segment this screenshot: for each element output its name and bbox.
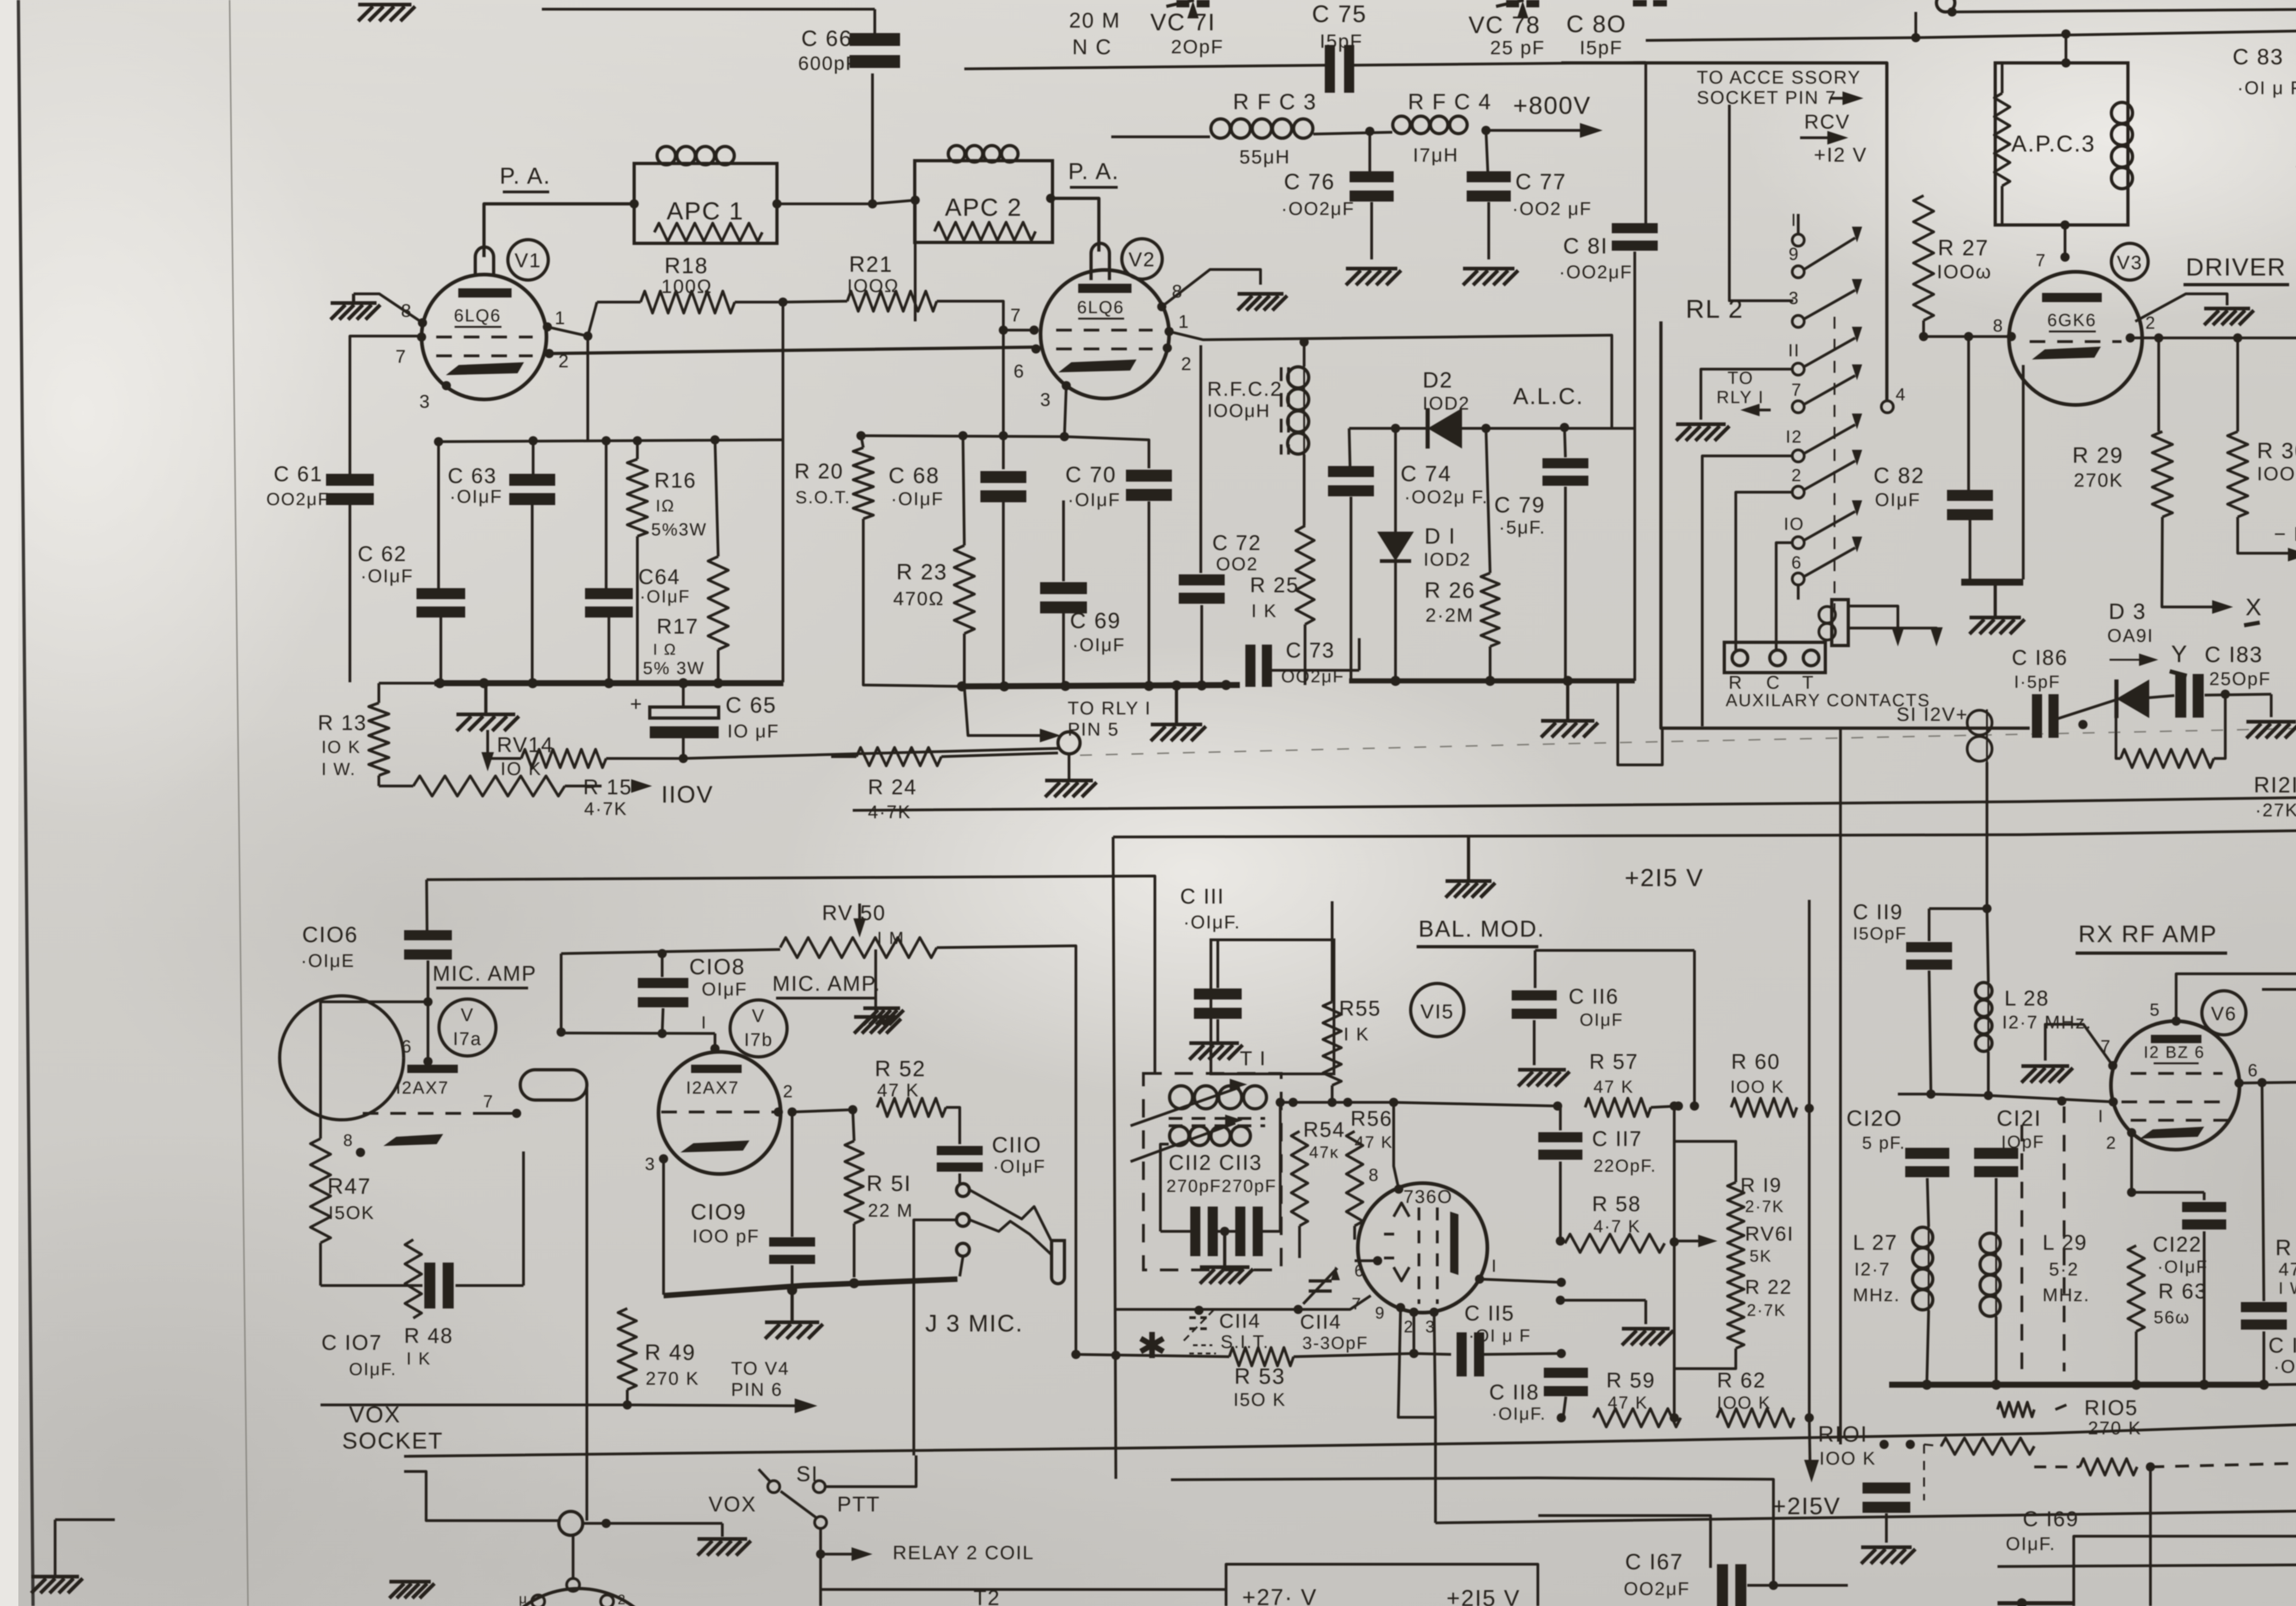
svg-text:8: 8 [1368,1166,1379,1185]
tube V1 pin 2 [545,349,570,371]
ground (C169) [1861,1547,1915,1564]
junction APC2 right [1046,194,1055,203]
resistor R59 [1557,1409,1681,1427]
tube V15 pins 9 2 3 [1375,1303,1439,1336]
wire APC3 to V3 cap [2064,225,2066,257]
svg-text:R 60: R 60 [1731,1050,1780,1073]
tube V1 pin 8 [401,301,427,327]
wire V1 top-cap to APC1 [484,204,634,257]
svg-text:OO2μF: OO2μF [266,490,330,509]
label APC2 [945,194,1023,221]
svg-text:·OO2μ F.: ·OO2μ F. [1404,487,1488,507]
capacitor C118 [1544,1282,1588,1418]
tube V17b pin 1 [701,1013,720,1053]
inner bracket (accessory) [1729,105,1793,301]
svg-text:·27K: ·27K [2255,800,2296,820]
tube V15 pin 1 [1475,1257,1497,1284]
svg-text:·OIμF: ·OIμF [2157,1258,2208,1277]
wire vox frame [404,1471,559,1521]
label R25 [1250,573,1299,621]
svg-text:I: I [2098,1107,2104,1126]
svg-text:9: 9 [1789,245,1800,264]
svg-text:3: 3 [1040,390,1052,410]
resistor R57 [1558,1098,1678,1117]
box T2 top [1226,1564,1538,1606]
svg-text:J 3 MIC.: J 3 MIC. [925,1310,1024,1337]
svg-text:IOOK: IOOK [2257,463,2296,484]
ground (C82/V3) [1970,585,2025,634]
label D2 [1423,368,1470,414]
switch S1 contact b [813,1481,825,1493]
resistor R58 [1560,1234,1674,1252]
label R60 [1730,1050,1784,1097]
label C68 [889,464,944,509]
wire pin2 to R52 node [792,1105,857,1114]
label R53 [1233,1365,1286,1410]
junction R57 right [1674,1101,1683,1111]
svg-text:I: I [1491,1257,1497,1276]
wire C167 right [1847,1585,1848,1598]
svg-text:470Ω: 470Ω [893,588,944,609]
label TO RLY 1 [1716,369,1771,416]
tube V17a envelope (half) [280,996,404,1120]
label +800V [1513,92,1591,119]
svg-text:55μH: 55μH [1239,146,1290,168]
wire R49 from bus [619,1296,619,1308]
label C118 [1489,1380,1546,1424]
wire relay2 arrow [821,1547,872,1561]
svg-text:3: 3 [419,392,431,412]
svg-text:2: 2 [1181,354,1193,374]
label circle V15 [1411,983,1464,1037]
resistor R29 [2152,338,2233,614]
potentiometer RV50 [780,904,937,958]
label C74 [1401,462,1488,507]
tube V2 pin 3 [1040,381,1071,410]
tube V1 cathode [446,362,524,375]
terminal circle (R24 line) [1058,732,1080,754]
wire V1 lower node rail [435,440,783,442]
vert x1222 [557,954,566,1037]
svg-text:R F C 3: R F C 3 [1233,90,1317,114]
svg-text:7: 7 [483,1092,494,1112]
svg-text:OO2: OO2 [1216,554,1258,574]
junction C106 node [423,997,433,1006]
box C111 [1211,940,1334,1074]
box APC3 [1995,63,2128,225]
tube V1 envelope [422,275,546,399]
svg-text:9: 9 [1375,1303,1385,1322]
svg-text:R: R [1728,673,1743,693]
tube V2 grid dashes [1056,330,1153,349]
tube V3 cathode lead+bar [1961,363,2034,582]
svg-text:·OIμF: ·OIμF [1072,635,1125,655]
wire V3 pin2 right rail [2130,333,2296,343]
wire y3317 long [1435,1511,2296,1523]
label T2 [974,1586,1001,1606]
contact 7 (RL2) [1791,381,1804,413]
label C80 [1566,11,1626,58]
svg-text:I Ω: I Ω [653,641,677,658]
tube V17a pin 8 [343,1131,365,1157]
wire y3301 [1538,1516,1711,1568]
junction V6 bus dots [1922,1379,2296,1390]
switch S1 blade [759,1469,816,1518]
capacitor C73 (series) [1226,638,1359,687]
inductor APC2 coil [948,146,1018,162]
svg-text:C 69: C 69 [1070,609,1121,633]
svg-text:PIN 6: PIN 6 [731,1380,783,1400]
svg-text:47 K: 47 K [2279,1259,2296,1280]
bus B3 (low horizontal) [404,1423,2296,1456]
svg-text:S.O.T.: S.O.T. [795,488,851,507]
capacitor C107 (series) [321,1151,523,1308]
wire C66col down from APC2 node [861,200,915,436]
svg-text:3-3OpF: 3-3OpF [1302,1334,1368,1353]
label C119 [1853,900,1907,943]
svg-text:R F C 4: R F C 4 [1408,90,1492,114]
svg-text:·OI μ F.: ·OI μ F. [2237,78,2296,98]
svg-text:6: 6 [1791,553,1802,573]
label L28 [2002,986,2092,1033]
svg-text:R16: R16 [654,468,697,492]
svg-text:C 79: C 79 [1494,493,1545,517]
label C84 [2295,603,2296,649]
svg-text:I K: I K [1344,1024,1369,1044]
tube V17b plate [691,1065,742,1073]
svg-text:IOO K: IOO K [1717,1393,1771,1413]
ground (C76) [1346,269,1401,285]
label TO ACCESSORY SOCKET PIN 7 [1697,67,1863,108]
junction R49 bottom [623,1400,632,1409]
ground (V17b bus) [765,1290,823,1339]
label A.P.C.3 [2011,131,2095,157]
label C65 [726,693,779,741]
label R16 [651,468,707,539]
svg-text:V: V [752,1006,765,1026]
junction APC1 left [630,199,639,208]
wire ALC bottom bus [1349,428,1635,681]
resistor R56 [1346,1102,1363,1240]
svg-text:2·7K: 2·7K [1747,1301,1786,1320]
label C75 [1312,1,1367,52]
tube V15 envelope [1358,1183,1487,1313]
junction R17 col top [710,435,720,444]
label C70 [1065,463,1121,510]
wire PTT to bus [825,1455,916,1487]
box bottom (C167 area) [1538,1478,1778,1590]
svg-text:736O: 736O [1403,1187,1453,1207]
svg-text:47 K: 47 K [1608,1393,1648,1413]
svg-text:100Ω: 100Ω [661,275,712,297]
capacitor C68 [980,436,1026,686]
tube V2 envelope [1041,270,1169,399]
svg-text:R54: R54 [1303,1117,1345,1141]
svg-text:C 83: C 83 [2233,45,2284,69]
svg-text:I2AX7: I2AX7 [686,1078,739,1098]
wire x3646 col [1670,1101,1679,1422]
label +12V [1814,144,1867,166]
svg-text:8: 8 [1993,316,2004,336]
capacitor C108 [638,949,688,1033]
capacitor C112 (series) [1160,1207,1218,1256]
label R121 [2254,773,2296,820]
svg-text:I2·7 MHz.: I2·7 MHz. [2002,1012,2092,1033]
svg-text:25OpF: 25OpF [2209,669,2271,689]
junction vox node [602,1519,611,1528]
label 20M NC [1069,8,1120,59]
tube V17b cathode [681,1140,749,1152]
svg-text:MIC. AMP.: MIC. AMP. [772,971,881,995]
wire V17b pin3 down [662,1159,665,1295]
label R49 [645,1341,699,1389]
svg-text:IOO K: IOO K [1730,1078,1784,1097]
tube V6 grid dashes [2122,1073,2232,1120]
label L29 [2043,1230,2090,1305]
wire R18-right column down [782,302,784,682]
svg-text:RIO5: RIO5 [2084,1396,2138,1420]
ground (RV50) [854,1017,901,1033]
label C73 [1281,638,1345,686]
tube V1 type label 6LQ6 [454,306,501,327]
svg-text:I5OK: I5OK [328,1203,375,1223]
label R57 [1589,1050,1638,1097]
svg-text:✱: ✱ [1137,1325,1168,1366]
svg-text:A.P.C.3: A.P.C.3 [2011,131,2095,157]
svg-text:I7b: I7b [744,1030,773,1050]
label TO RLY1 PIN 5 [1068,698,1151,740]
svg-text:C 77: C 77 [1515,170,1566,194]
svg-text:CII4: CII4 [1219,1310,1261,1332]
wire C117col ground link [1556,1296,1646,1324]
wire S1 down [816,1528,825,1606]
ground bus under V1 (thick) [434,680,783,686]
diode D3 [2083,679,2149,724]
pot RV61 wiper arrow [1677,1235,1717,1247]
tube V15 deflection glyphs [1394,1192,1409,1281]
svg-text:VOX: VOX [349,1402,401,1427]
tube V17b grid dash [661,1111,781,1113]
svg-text:·OIμF: ·OIμF [360,566,414,586]
svg-text:I·5pF: I·5pF [2014,673,2060,692]
junction T1 col [1276,1098,1298,1107]
svg-text:R 62: R 62 [1717,1368,1766,1392]
label R21 [847,253,899,296]
wire x1278 down to vox area [585,1331,588,1521]
wire R21 col down [1002,330,1005,436]
tube V15 grid ticks [1384,1234,1394,1258]
svg-text:IO K: IO K [321,738,361,757]
svg-text:R.F.C.2: R.F.C.2 [1207,378,1283,400]
tube V6 plate [2151,1035,2201,1043]
wire V2 pin1/2 to ALC [1169,331,1612,428]
tube V17a cathode [383,1134,443,1146]
terminal C [1766,650,1785,693]
svg-text:R56: R56 [1351,1106,1393,1130]
svg-text:I5O K: I5O K [1233,1390,1286,1410]
tube V6 pin 5 [2150,1000,2181,1026]
svg-text:IOO K: IOO K [1819,1449,1876,1469]
wire rcv line [1763,151,1796,152]
svg-text:P. A.: P. A. [500,163,551,189]
capacitor C69 [1040,500,1087,686]
transformer T1 core [1169,1118,1265,1126]
label C108 [689,955,748,1000]
svg-text:OIμF: OIμF [1580,1011,1623,1030]
svg-text:C IO7: C IO7 [321,1331,383,1354]
wire T1 sec left [1160,1144,1169,1231]
svg-text:VI5: VI5 [1420,1000,1454,1023]
resistor R62 [1681,1409,1809,1427]
ground (C183) [2246,722,2296,738]
svg-text:I2AX7: I2AX7 [396,1078,449,1098]
contact 11 (RL2) [1788,341,1804,375]
wire terminal to ground [1068,754,1070,781]
tube V6 type 12BZ6 [2144,1043,2205,1063]
svg-text:5% 3W: 5% 3W [643,659,705,678]
svg-text:RLY I: RLY I [1716,388,1764,407]
svg-text:22OpF.: 22OpF. [1593,1157,1657,1176]
wire ring to S1 [914,1220,957,1455]
label circle V3 [2111,243,2148,280]
svg-text:R17: R17 [657,614,699,638]
junction C66 bottom [868,199,877,208]
wire coil to S1 arrows [1848,606,1943,646]
svg-text:IO: IO [1784,515,1804,534]
junction R60 right [1805,1104,1814,1113]
svg-text:IO μF: IO μF [727,721,779,741]
label C111 [1180,884,1241,932]
tube V17b pin 2 [774,1082,797,1117]
junction C65 bottom [679,754,688,763]
resistor R48 [405,1240,422,1318]
svg-text:R18: R18 [664,254,709,278]
label RFC3 [1233,90,1317,168]
wire RV50 right to C111 col [937,946,1076,1353]
capacitor C111 [1194,940,1242,1041]
relay RL2 label [1686,294,1744,323]
contact 2 (RL2) [1791,466,1804,498]
zigzag upper (R101 tail) [1998,1402,2066,1417]
svg-text:I5pF: I5pF [1320,30,1363,52]
svg-text:CIO8: CIO8 [689,955,745,979]
tube V3 pin 7 [2036,251,2070,270]
tube V2 pin 7 [1010,305,1039,335]
wire R53 rail [1071,1350,1229,1360]
contact 9 (RL2) [1789,245,1804,278]
tube V3 grid dashes [2030,340,2122,343]
label C117 [1592,1127,1657,1176]
wire capsule right down [585,1085,588,1331]
svg-text:MHz.: MHz. [2043,1285,2090,1305]
label MIC.AMP (V17a) [433,961,537,988]
label C109 [691,1200,760,1247]
thick stub bottom right [1998,1598,2074,1606]
capacitor C120 [1905,1095,1949,1227]
wire V1 pin8 to ground [354,294,422,323]
relay blades [1805,279,1862,576]
svg-text:SOCKET PIN 7: SOCKET PIN 7 [1697,88,1837,108]
svg-text:2: 2 [1791,466,1802,485]
junction ALC bus dots [1390,676,1573,686]
wire V2 lower node rail [861,436,1064,437]
tube V2 pin 8 [1157,281,1183,311]
svg-text:TO V4: TO V4 [731,1359,789,1379]
label VOX SOCKET [342,1402,444,1454]
tube V3 type 6GK6 [2047,311,2096,331]
svg-text:600pF: 600pF [798,52,859,74]
terminal T [1802,650,1819,693]
bus top right upper [1952,9,2296,12]
wire y2251 [561,1029,715,1038]
tube V1 pin 1 [543,308,566,331]
svg-text:+800V: +800V [1513,92,1591,119]
svg-text:·5μF.: ·5μF. [1499,517,1546,538]
wire pin1 rail right [1480,1278,1566,1287]
label C82 [1874,464,1925,510]
wire bottom bus partial [821,1588,1226,1591]
svg-text:2: 2 [618,1592,626,1606]
svg-text:2: 2 [783,1082,794,1101]
label PTT [837,1492,880,1516]
wire V2 pin8 to ground [1162,270,1261,307]
svg-text:CIO9: CIO9 [691,1200,747,1224]
label VC71 [1150,9,1224,57]
wire V1 pin2 bus to V2 pin6 [549,347,1036,354]
svg-text:3: 3 [645,1155,656,1174]
svg-text:C 63: C 63 [448,464,497,488]
arrow 110V [631,779,714,808]
label R58 [1592,1192,1641,1236]
paper fold crease line [230,0,248,1606]
dashed relay actuate line [1834,317,1835,611]
svg-text:C III: C III [1180,884,1225,908]
svg-text:CII2 CII3: CII2 CII3 [1169,1151,1262,1174]
outer bracket left [1661,321,2030,728]
inductor L27 [1913,1227,1933,1385]
svg-text:7: 7 [2100,1037,2111,1056]
contact 10 (RL2) [1784,515,1804,549]
label C114 S.I.T. [1219,1310,1269,1352]
svg-text:R21: R21 [849,253,893,277]
resistor R15 [521,749,606,768]
label D1 [1424,524,1471,570]
wire vox node [583,1523,722,1537]
svg-text:P. A.: P. A. [1068,158,1120,184]
wire V3 pin8 rail [1919,332,2011,341]
wire vox down to socket [572,1535,574,1579]
resistor R24 [831,747,1058,766]
junction APC1 right [772,199,782,208]
jack J3 springs [970,1190,1052,1255]
svg-text:5K: 5K [1750,1247,1772,1265]
resistor R53 [1229,1348,1414,1366]
diode D1 [1377,428,1414,681]
svg-text:C I69: C I69 [2023,1507,2079,1531]
svg-text:2·7K: 2·7K [1745,1197,1784,1216]
vox socket pin right [601,1592,626,1606]
label R101 [1818,1422,1876,1469]
label TO V4 PIN 6 [731,1359,789,1400]
svg-text:VOX: VOX [709,1492,757,1516]
variable capacitor VC78 (top edge) [1496,0,1539,18]
svg-text:C 82: C 82 [1874,464,1925,488]
junction APC2 left [911,196,920,205]
resistor R121 [2116,694,2225,768]
switch S1 contact c [815,1516,827,1528]
svg-text:270 K: 270 K [646,1369,699,1389]
resistor R54 [1291,1102,1308,1258]
